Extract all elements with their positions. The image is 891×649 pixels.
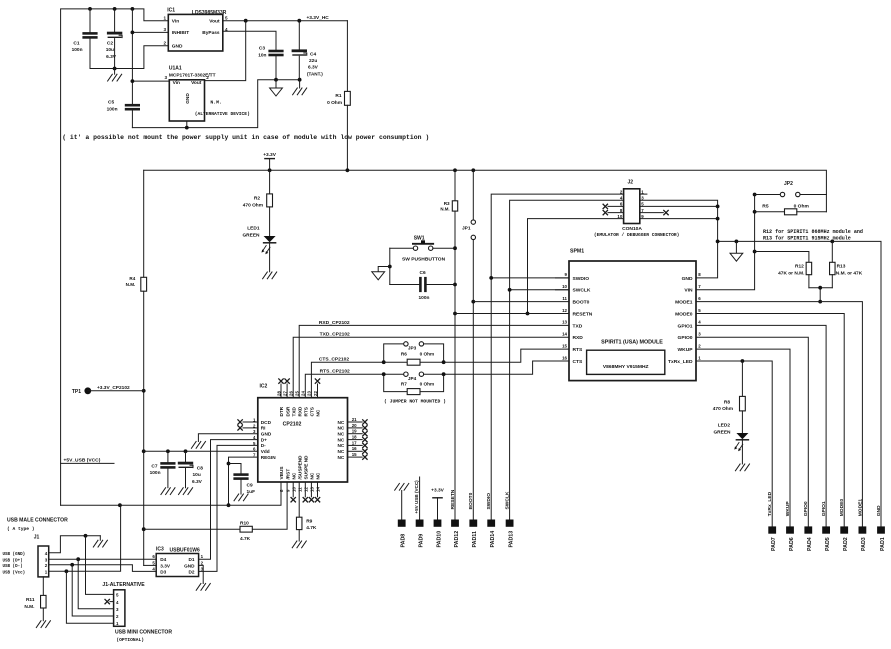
capacitor C3 10n <box>223 31 282 79</box>
wire J1-ALT pin 4 stub n.c. <box>110 601 114 603</box>
junction RESETN line <box>453 312 457 316</box>
junction D- branch <box>70 563 74 567</box>
wire CP2102 pin 22 NC n.c. <box>317 384 319 398</box>
svg-text:/SUSPEND: /SUSPEND <box>297 455 302 480</box>
junction J1 Vcc riser <box>118 503 122 507</box>
svg-text:R4: R4 <box>129 276 135 281</box>
svg-text:PAD1: PAD1 <box>880 537 886 551</box>
svg-text:GPIO1: GPIO1 <box>678 323 693 329</box>
module SPM1 SPIRIT1 (USA) MODULE <box>569 249 696 381</box>
svg-text:470 Ohm: 470 Ohm <box>713 406 733 412</box>
svg-text:PAD4: PAD4 <box>807 537 813 551</box>
svg-text:21: 21 <box>352 417 357 422</box>
pad PAD10 +3.3V <box>431 487 444 547</box>
svg-text:26: 26 <box>289 391 294 396</box>
wire J2 pin 1 stub <box>640 193 647 195</box>
svg-text:1: 1 <box>163 15 166 20</box>
svg-text:MODE1: MODE1 <box>675 300 693 306</box>
wire INHIBIT net vertical to U1A1 Vin and C5 <box>131 9 133 105</box>
svg-text:PAD3: PAD3 <box>861 537 867 551</box>
svg-text:16: 16 <box>562 355 567 360</box>
wire USB GND: J1 pin 4 to chassis and J1-ALT pin 5 <box>49 536 101 553</box>
svg-text:N.M. or 47K: N.M. or 47K <box>836 271 863 277</box>
resistor R10 4.7K <box>144 521 253 542</box>
svg-text:SWDIO: SWDIO <box>573 276 590 282</box>
svg-text:CTS: CTS <box>310 407 315 416</box>
wire J2 pin 10 to RESETN line <box>528 219 624 314</box>
svg-text:SW PUSHBUTTON: SW PUSHBUTTON <box>402 256 446 262</box>
svg-text:IC3: IC3 <box>156 547 164 553</box>
svg-text:RI: RI <box>261 426 266 431</box>
svg-text:RXD_CP2102: RXD_CP2102 <box>319 320 350 326</box>
svg-text:Vin: Vin <box>172 19 179 25</box>
svg-text:10u: 10u <box>193 472 201 478</box>
svg-text:LED2: LED2 <box>718 423 731 429</box>
svg-text:JP3: JP3 <box>408 345 417 350</box>
svg-text:IC1: IC1 <box>167 8 175 14</box>
svg-text:PAD2: PAD2 <box>843 537 849 551</box>
wire SPM1 pin 9 stub <box>556 277 570 279</box>
junction JP4 right <box>442 372 446 376</box>
resistor R6 0 Ohm <box>384 351 444 365</box>
junction R10 line <box>142 527 146 531</box>
junction R5 left <box>753 210 757 214</box>
svg-text:CTS: CTS <box>573 359 584 365</box>
svg-text:R8: R8 <box>724 399 730 405</box>
svg-text:GND: GND <box>172 44 183 50</box>
junction RESETN at J2 branch <box>526 312 530 316</box>
wire CP2102 GND pin 3 to chassis ground <box>198 434 257 442</box>
svg-text:RXD: RXD <box>573 335 584 341</box>
svg-text:NC: NC <box>338 426 345 431</box>
wire D+ line J1 pin 3 to IC3 D4 pin 6 <box>49 558 157 560</box>
svg-text:4.7K: 4.7K <box>306 525 317 531</box>
svg-text:3.3V: 3.3V <box>160 563 171 568</box>
junction C7 <box>166 449 170 453</box>
junction R13 top <box>830 240 834 244</box>
svg-text:REGIN: REGIN <box>261 455 276 460</box>
svg-text:C5: C5 <box>108 100 114 106</box>
svg-text:GND: GND <box>261 432 272 437</box>
junction top rail at INHIBIT branch <box>131 7 135 11</box>
wire CP2102 pin 1 DCD n.c. <box>243 421 258 423</box>
svg-text:R12: R12 <box>795 263 804 269</box>
resistor R12 47K or N.M. <box>755 252 812 288</box>
capacitor C2 10u 6.3V <box>106 9 122 69</box>
svg-text:Vout: Vout <box>209 19 220 25</box>
pad PAD9 +5V USB (VCC) <box>414 477 424 548</box>
svg-text:+3.3V_HC: +3.3V_HC <box>307 15 330 21</box>
svg-text:12: 12 <box>304 487 309 492</box>
wire RXD_CP2102 net to SPM1 TXD pin 13 <box>299 325 569 397</box>
svg-text:GREEN: GREEN <box>242 232 260 238</box>
svg-text:C2: C2 <box>107 40 113 46</box>
svg-text:SWCLK: SWCLK <box>573 288 591 294</box>
svg-text:20: 20 <box>352 423 357 428</box>
junction BOOT0 line <box>471 300 475 304</box>
junction JP2 left <box>753 193 757 197</box>
resistor R5 0 Ohm <box>755 203 827 215</box>
svg-text:(TANT.): (TANT.) <box>307 71 323 76</box>
resistor R8 470 Ohm <box>713 361 746 433</box>
wire GND bottom line C5 / U1A1 GND to C3 C4 rail <box>132 80 299 128</box>
svg-text:BOOT0: BOOT0 <box>468 492 474 509</box>
svg-text:TXD_CP2102: TXD_CP2102 <box>320 332 350 338</box>
junction Vcc branch <box>65 569 69 573</box>
svg-text:18: 18 <box>352 435 357 440</box>
wire VBUS pin 8 to +5V line <box>61 482 281 505</box>
svg-text:22u: 22u <box>309 58 317 64</box>
svg-text:0 Ohm: 0 Ohm <box>420 351 435 356</box>
junction INHIBIT <box>131 31 135 35</box>
svg-text:LED1: LED1 <box>247 226 260 232</box>
svg-text:+3.3V_CP2102: +3.3V_CP2102 <box>97 385 130 391</box>
pad PAD8 with ground <box>395 483 409 547</box>
wire RTS_CP2102 net to SPM1 CTS pin 16 <box>305 374 403 398</box>
svg-text:0 Ohm: 0 Ohm <box>327 100 342 106</box>
junction gnd branch to J1-ALT <box>84 534 88 538</box>
svg-text:PAD10: PAD10 <box>436 531 442 548</box>
ground chassis under C9 <box>234 494 248 501</box>
svg-text:GND: GND <box>185 93 191 104</box>
CP2102 bottom pin names rotated <box>279 455 321 492</box>
junction U1A1 Vin branch <box>131 79 135 83</box>
svg-text:( A type ): ( A type ) <box>7 526 35 532</box>
ground chassis under R9 <box>292 541 306 548</box>
svg-text:(ALTERNATIVE DEVICE): (ALTERNATIVE DEVICE) <box>195 111 250 117</box>
junction C9 branch <box>227 462 231 466</box>
wire SWCLK net: J2 pin 4 to SPM1 pin 10 and PAD13 <box>510 200 624 520</box>
wire gnd branch to J1-ALT pin 5 <box>86 536 114 595</box>
svg-text:13: 13 <box>310 487 315 492</box>
svg-text:14: 14 <box>562 332 567 337</box>
resistor R1 0 Ohm <box>327 21 350 171</box>
svg-text:0 Ohm: 0 Ohm <box>420 382 435 387</box>
svg-text:USB (GND): USB (GND) <box>3 552 26 557</box>
svg-text:TXD: TXD <box>291 407 296 417</box>
junction C2 at gnd rail <box>113 67 117 71</box>
capacitor C5 100n <box>107 100 139 128</box>
svg-text:6.3V: 6.3V <box>308 65 319 71</box>
wire +5V_USB net: left vertical, top rail, step to IC1 Vin pin 1 <box>61 9 169 505</box>
ground chassis under R11 <box>36 621 50 628</box>
svg-text:USB (D-): USB (D-) <box>3 564 23 569</box>
svg-text:RESETN: RESETN <box>450 489 456 509</box>
connector J1-ALTERNATIVE USB MINI <box>102 582 172 643</box>
svg-text:PAD9: PAD9 <box>418 534 424 548</box>
svg-text:C4: C4 <box>310 51 316 57</box>
CP2102 right pin names NC <box>338 417 358 460</box>
wire CP2102 pin 10 n.c. <box>292 482 294 497</box>
svg-text:R11: R11 <box>26 597 35 603</box>
svg-text:NC: NC <box>310 472 315 479</box>
pad PAD12 RESETN <box>450 489 460 547</box>
svg-text:Vout: Vout <box>191 80 202 86</box>
svg-text:RTS: RTS <box>304 407 309 416</box>
svg-text:IC2: IC2 <box>260 383 268 389</box>
svg-text:N.M.: N.M. <box>126 282 136 287</box>
junction SWDIO <box>489 276 493 280</box>
junction SWCLK <box>508 288 512 292</box>
svg-text:C9: C9 <box>247 483 253 489</box>
svg-text:GND: GND <box>184 563 195 568</box>
svg-text:NC: NC <box>338 449 345 454</box>
svg-text:DTR: DTR <box>279 406 284 416</box>
svg-text:PAD8: PAD8 <box>401 534 407 548</box>
capacitor C9 1uF <box>229 464 256 496</box>
svg-text:SW1: SW1 <box>414 235 425 241</box>
svg-text:12: 12 <box>562 308 567 313</box>
svg-text:11: 11 <box>562 296 567 301</box>
svg-text:USB (Vcc): USB (Vcc) <box>3 571 26 576</box>
svg-text:JP2: JP2 <box>784 181 793 187</box>
ground triangle near SW1 <box>378 267 390 272</box>
wire +3.3V_HC net from IC1 Vout pin 5 to R1 <box>223 20 348 22</box>
svg-text:JP4: JP4 <box>408 376 417 381</box>
svg-text:100n: 100n <box>150 470 161 476</box>
svg-text:V868MHY V915MHZ: V868MHY V915MHZ <box>603 364 649 370</box>
svg-text:NC: NC <box>338 455 345 460</box>
svg-text:100n: 100n <box>72 47 83 53</box>
svg-text:PAD7: PAD7 <box>771 537 777 551</box>
CP2102 left pin names <box>253 417 276 460</box>
regulator U1A1 MCP1701T-3302E/TT <box>164 65 215 121</box>
junction C8 <box>184 449 188 453</box>
capacitor C8 10u 6.3V <box>179 451 203 487</box>
wire MODE0 net to PAD2 <box>696 314 844 527</box>
J2 pin numbers <box>617 189 644 219</box>
resistor R11 N.M. <box>24 577 46 621</box>
svg-text:47K or N.M.: 47K or N.M. <box>778 271 804 277</box>
svg-text:24: 24 <box>301 391 306 396</box>
svg-text:CTS_CP2102: CTS_CP2102 <box>319 357 349 363</box>
wire CP2102 pin 12 n.c. <box>304 482 306 497</box>
capacitor C4 22u 6.3V TANT <box>293 21 323 80</box>
svg-text:2: 2 <box>206 75 209 80</box>
svg-text:RTS: RTS <box>573 347 584 353</box>
svg-text:D1: D1 <box>189 557 195 562</box>
wire CTS_CP2102 net to SPM1 RTS pin 15 <box>311 362 383 398</box>
svg-text:3: 3 <box>164 75 167 80</box>
wire CP2102 pin 28 DTR n.c. <box>280 384 282 398</box>
svg-text:BOOT0: BOOT0 <box>573 300 590 306</box>
svg-text:NC: NC <box>338 432 345 437</box>
svg-text:100n: 100n <box>107 107 118 113</box>
svg-text:16: 16 <box>352 446 357 451</box>
svg-text:C8: C8 <box>197 465 203 471</box>
junction top rail at C1 <box>88 7 92 11</box>
svg-text:470 Ohm: 470 Ohm <box>243 202 263 208</box>
resistor R4 N.M. on +3.3V_CP2102 branch <box>126 170 157 565</box>
wire CP2102 pin 27 DSR n.c. <box>286 384 288 398</box>
resistor R13 N.M. or 47K <box>830 241 863 287</box>
ground chassis under C7 <box>161 488 175 495</box>
resistor R9 4.7K on /SUSPEND pin 11 <box>296 482 316 541</box>
wire Vcc branch to J1-ALT pin 1 <box>66 571 113 623</box>
ground chassis under IC3 <box>196 584 210 591</box>
svg-text:D3: D3 <box>160 569 166 574</box>
svg-text:LDS3985M33R: LDS3985M33R <box>192 10 227 16</box>
svg-text:100n: 100n <box>419 295 430 301</box>
wire J2 pin 7 stub n.c. <box>640 212 664 214</box>
junction JP4 left <box>382 372 386 376</box>
junction C3 at gnd rail <box>274 78 278 82</box>
svg-text:Vdd: Vdd <box>261 449 270 454</box>
wire SPM1 pin 10 stub <box>556 289 570 291</box>
svg-text:USB MINI CONNECTOR: USB MINI CONNECTOR <box>115 630 172 636</box>
wire SWDIO net: J2 pin 2 to SPM1 pin 9 and PAD14 <box>491 194 623 520</box>
svg-text:MODE0: MODE0 <box>839 499 845 517</box>
wire RESETN line to SPM1 pin 12 <box>455 313 569 315</box>
junction ground stub SW1 <box>388 265 392 269</box>
svg-text:WKUP: WKUP <box>785 501 791 517</box>
power symbol +3.3V <box>269 159 271 171</box>
svg-text:INHIBIT: INHIBIT <box>172 30 189 36</box>
svg-text:SWCLK: SWCLK <box>505 491 511 509</box>
svg-text:J1-ALTERNATIVE: J1-ALTERNATIVE <box>102 582 145 588</box>
CP2102 right pins n.c. stubs <box>348 420 368 460</box>
svg-text:USBUF01W6: USBUF01W6 <box>170 548 201 554</box>
wire GND net: J2 pins 3/5/9, SPM1 pin 8, gnd rail to PAD1 <box>640 200 718 278</box>
pad PAD1 GND <box>876 505 886 551</box>
svg-text:N.M.: N.M. <box>440 207 449 212</box>
pad PAD11 BOOT0 <box>468 492 478 547</box>
svg-text:SPIRIT1 (USA) MODULE: SPIRIT1 (USA) MODULE <box>601 340 663 346</box>
svg-text:C1: C1 <box>73 40 79 46</box>
svg-text:CON10A: CON10A <box>622 226 642 232</box>
svg-text:25: 25 <box>295 391 300 396</box>
svg-text:11: 11 <box>297 487 302 492</box>
wire J2 pin 8 stub n.c. <box>608 212 624 214</box>
resistor R7 0 Ohm <box>384 374 444 394</box>
ground triangle on gnd rail <box>735 241 737 253</box>
svg-text:GREEN: GREEN <box>713 429 731 435</box>
capacitor C1 100n <box>72 9 97 69</box>
ground triangle under C3 <box>275 80 277 88</box>
svg-text:R1: R1 <box>335 93 341 99</box>
svg-text:10: 10 <box>617 214 622 219</box>
svg-text:VBUS: VBUS <box>279 466 284 479</box>
wire CP2102 pin 13 n.c. <box>310 482 312 497</box>
wire TXD_CP2102 net to SPM1 RXD pin 14 <box>293 337 569 397</box>
wire +3.3V rail <box>144 170 827 212</box>
svg-text:0 Ohm: 0 Ohm <box>794 203 810 209</box>
svg-text:R13 for SPIRIT1 915MHz module: R13 for SPIRIT1 915MHz module <box>763 236 851 242</box>
svg-text:TP1: TP1 <box>72 389 81 395</box>
jumper JP4 <box>404 372 424 381</box>
svg-text:( it' a possible not mount the: ( it' a possible not mount the power sup… <box>62 134 429 141</box>
svg-text:J1: J1 <box>34 535 40 541</box>
resistor R2 470 Ohm <box>243 170 273 236</box>
wire D+ branch to J1-ALT pin 3 <box>78 559 113 609</box>
svg-text:17: 17 <box>352 440 357 445</box>
svg-text:10u: 10u <box>106 47 114 53</box>
pad PAD5 GPIO1 <box>821 501 831 551</box>
svg-text:USB MALE CONNECTOR: USB MALE CONNECTOR <box>7 518 68 524</box>
wire MODE1 net to PAD3 <box>696 302 862 527</box>
IC IC3 USBUF01W6 <box>152 547 203 577</box>
svg-text:19: 19 <box>352 429 357 434</box>
junction Vdd rail <box>142 449 146 453</box>
svg-text:4.7K: 4.7K <box>240 536 251 542</box>
svg-text:D-: D- <box>261 443 266 448</box>
junction Vout riser <box>244 19 248 23</box>
svg-text:SUSPE ND: SUSPE ND <box>304 455 309 480</box>
jumper JP3 <box>384 342 444 363</box>
svg-text:10: 10 <box>291 487 296 492</box>
svg-text:5: 5 <box>225 15 228 20</box>
svg-text:MODE0: MODE0 <box>675 311 693 317</box>
junction D+ branch <box>76 557 80 561</box>
junction R12 line <box>753 250 757 254</box>
test point TP1 +3.3V_CP2102 <box>72 385 144 395</box>
wire CP2102 pin 14 n.c. <box>317 482 319 497</box>
svg-text:R13: R13 <box>837 263 846 269</box>
svg-text:VIN: VIN <box>684 288 693 294</box>
svg-text:6.3V: 6.3V <box>192 479 203 485</box>
svg-text:RESETN: RESETN <box>573 311 593 317</box>
svg-text:3: 3 <box>163 27 166 32</box>
jumper JP1 <box>462 170 476 520</box>
svg-text:15: 15 <box>562 343 567 348</box>
pad PAD14 SWDIO <box>486 493 496 548</box>
svg-text:GPIO1: GPIO1 <box>821 501 827 516</box>
ground chassis under C4 <box>299 80 301 88</box>
CP2102 top pin names rotated <box>276 391 320 417</box>
svg-text:PAD13: PAD13 <box>508 531 514 548</box>
ground chassis under C8 <box>179 488 193 495</box>
wire TxRx_LED net to PAD7 <box>696 361 772 527</box>
svg-text:NC: NC <box>338 443 345 448</box>
wire D- net CP2102 pin 5 to IC3 D2 pin 3 <box>199 445 258 571</box>
junction J2 pin9 <box>716 217 720 221</box>
svg-text:NC: NC <box>338 437 345 442</box>
svg-text:NC: NC <box>316 409 321 416</box>
svg-text:R9: R9 <box>306 518 312 524</box>
svg-text:+3.3V: +3.3V <box>431 487 444 493</box>
wire IC1 INHIBIT pin 3 <box>132 31 168 33</box>
svg-text:NC: NC <box>338 420 345 425</box>
junction gnd triangle branch <box>735 240 739 244</box>
svg-text:D4: D4 <box>160 557 166 562</box>
svg-text:PAD14: PAD14 <box>490 531 496 548</box>
svg-text:NC: NC <box>316 472 321 479</box>
switch SW1 SW PUSHBUTTON <box>390 235 455 284</box>
ground chassis at J1 gnd <box>93 540 107 547</box>
pad PAD2 MODE0 <box>839 499 849 551</box>
svg-text:SWDIO: SWDIO <box>486 493 492 510</box>
wire U1A1 Vout pin 2 riser to +3.3V_HC <box>205 21 246 81</box>
svg-text:/RST: /RST <box>285 469 290 480</box>
svg-text:C7: C7 <box>151 463 157 469</box>
svg-text:CP2102: CP2102 <box>283 422 302 428</box>
junction C4 top <box>297 19 301 23</box>
junction R2 branch <box>268 168 272 172</box>
LED2 GREEN <box>713 423 748 464</box>
wire D+ net CP2102 pin 4 to IC3 D1 pin 1 <box>199 440 258 560</box>
svg-text:R6: R6 <box>401 351 407 356</box>
junction SW1 line <box>453 246 457 250</box>
svg-text:R2: R2 <box>254 196 260 202</box>
svg-text:TXD: TXD <box>573 323 583 329</box>
wire WKUP net to PAD6 <box>696 349 790 527</box>
wire GPIO0 net to PAD4 <box>696 337 808 527</box>
svg-text:USB (D+): USB (D+) <box>3 558 23 563</box>
svg-text:JP1: JP1 <box>462 225 471 231</box>
pad PAD6 WKUP <box>785 501 795 551</box>
svg-text:U1A1: U1A1 <box>169 65 182 71</box>
wire R12/R13 bottom to MODE1 <box>809 287 832 289</box>
